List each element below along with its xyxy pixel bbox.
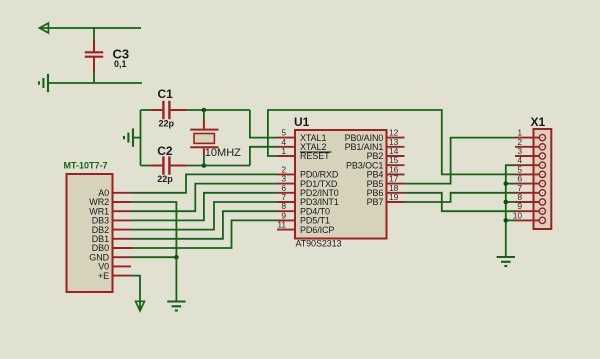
wire crystal top connect — [203, 110, 205, 120]
pin 12 stub (PB0/AIN0) — [387, 137, 405, 139]
pin 7 stub (PD3/INT1) — [277, 201, 295, 203]
wire to XTAL2 pin 4 — [250, 147, 277, 166]
capacitor C3 top lead — [93, 39, 95, 51]
ground (MT GND) — [167, 302, 185, 311]
connector X1 body — [534, 129, 552, 229]
junction GND node — [174, 255, 179, 260]
wire RESET net to X1 pin 5 — [268, 110, 515, 174]
wire +E down to power arrow — [131, 276, 140, 310]
svg-text:X1: X1 — [531, 115, 546, 129]
pin stub DB1 — [113, 238, 132, 240]
crystal 10MHZ body — [194, 134, 214, 144]
pin 2 stub (X1) — [515, 146, 539, 148]
wire DB0 to PD5 — [131, 220, 277, 248]
junction X1 pin 10 — [504, 218, 509, 223]
svg-text:PD6/ICP: PD6/ICP — [300, 225, 334, 235]
pin 7 stub (X1) — [515, 192, 539, 194]
wire PB7 to X1 pin 7 — [405, 193, 516, 202]
svg-text:0,1: 0,1 — [114, 59, 127, 69]
capacitor C2 right lead — [171, 165, 187, 167]
svg-text:AT90S2313: AT90S2313 — [296, 239, 342, 249]
capacitor C1 plates — [163, 101, 169, 119]
pin hole 9 (X1) — [539, 208, 545, 214]
pin 5 stub (XTAL1) — [277, 137, 295, 139]
svg-text:1: 1 — [281, 146, 286, 156]
wire bottom ground rail — [48, 82, 142, 84]
svg-text:RESET: RESET — [300, 151, 330, 161]
pin 3 stub (X1) — [515, 155, 539, 157]
wire rail to X1 pin 8 — [506, 201, 515, 203]
wire DB2 to PD3 — [131, 202, 277, 230]
pin 4 stub (X1) — [515, 164, 539, 166]
crystal 10MHZ plates — [190, 130, 218, 148]
svg-text:22p: 22p — [157, 174, 173, 184]
pin stub WR1 — [113, 210, 132, 212]
ground (crystal loop) — [124, 128, 133, 146]
wire WR1 to PD1 — [131, 184, 277, 212]
pin stub DB0 — [113, 247, 132, 249]
power arrow (down-pointing, +E) — [136, 301, 145, 311]
pin 6 stub (X1) — [515, 183, 539, 185]
pin 9 stub (PD5/T1) — [277, 219, 295, 221]
pin 15 stub (PB3/OC1) — [387, 164, 405, 166]
wire PB5 to X1 pin 1 — [405, 138, 516, 184]
junction X1 pin 6 — [504, 181, 509, 186]
wire C3 top lead (net) — [93, 28, 95, 39]
pin hole 2 (X1) — [539, 144, 545, 150]
pin hole 7 (X1) — [539, 190, 545, 196]
pin stub DB3 — [113, 219, 132, 221]
capacitor C2 left lead — [150, 165, 162, 167]
pin 8 stub (PD4/T0) — [277, 210, 295, 212]
capacitor C3 bottom lead — [93, 58, 95, 73]
pin 18 stub (PB6) — [387, 192, 405, 194]
pin 3 stub (PD1/TXD) — [277, 183, 295, 185]
pin 5 stub (X1) — [515, 173, 539, 175]
pin stub WR2 — [113, 201, 132, 203]
capacitor C3 plates — [85, 52, 103, 56]
svg-text:U1: U1 — [294, 115, 310, 129]
capacitor C1 left lead — [150, 109, 162, 111]
wire rail to X1 pin 10 — [506, 219, 515, 221]
pin 1 stub (RESET) — [277, 155, 295, 157]
svg-text:10: 10 — [513, 210, 523, 220]
junction X1 pin 8 — [504, 200, 509, 205]
capacitor C1 right lead — [171, 109, 187, 111]
wire C1 to junction / XTAL1 run — [187, 109, 250, 111]
pin 13 stub (PB1/AIN1) — [387, 146, 405, 148]
pin 9 stub (X1) — [515, 210, 539, 212]
wire A0 to PD0 — [131, 174, 277, 192]
crystal X1 top pin — [203, 120, 205, 129]
svg-text:22p: 22p — [159, 119, 175, 129]
pin 16 stub (PB4) — [387, 173, 405, 175]
pin 6 stub (PD2/INT0) — [277, 192, 295, 194]
svg-text:PB7: PB7 — [367, 197, 384, 207]
pin 1 stub (X1) — [515, 137, 539, 139]
pin 17 stub (PB5) — [387, 183, 405, 185]
LCD module MT-10T7-7 body — [67, 174, 113, 292]
svg-text:11: 11 — [277, 220, 286, 230]
wire WR2 down to GND node — [131, 202, 176, 257]
wire PB6 to X1 pin 9 — [405, 193, 516, 211]
wire GND to junction — [131, 256, 176, 258]
pin hole 1 (X1) — [539, 135, 545, 141]
junction crystal top — [202, 108, 207, 113]
ground (top-left rail) — [39, 74, 48, 92]
wire to XTAL1 pin 5 — [250, 110, 277, 138]
crystal bottom pin — [203, 148, 205, 156]
pin 4 stub (XTAL2) — [277, 146, 295, 148]
svg-text:19: 19 — [389, 192, 399, 202]
wire ground stub to loop — [133, 137, 141, 139]
pin hole 6 (X1) — [539, 181, 545, 187]
pin 8 stub (X1) — [515, 201, 539, 203]
pin 19 stub (PB7) — [387, 201, 405, 203]
wire top power rail — [40, 27, 141, 29]
pin stub V0 — [113, 265, 132, 267]
wire GND node down to ground — [175, 257, 177, 301]
op-amp/IC U1 body — [295, 130, 387, 239]
wire DB1 to PD4 — [131, 211, 277, 239]
RESET overline — [300, 151, 332, 153]
wire rail to X1 pin 6 — [506, 183, 515, 185]
svg-text:10MHZ: 10MHZ — [205, 147, 241, 159]
svg-text:+E: +E — [98, 271, 109, 281]
pin stub GND — [113, 256, 132, 258]
wire C2 left (net) — [141, 165, 151, 167]
pin 10 stub (X1) — [515, 219, 539, 221]
wire DB3 to PD2 — [131, 193, 277, 221]
pin hole 4 (X1) — [539, 162, 545, 168]
ground (X1 rail) — [497, 257, 515, 266]
svg-text:C2: C2 — [157, 144, 173, 158]
svg-text:C1: C1 — [158, 87, 174, 101]
pin stub A0 — [113, 192, 132, 194]
pin 2 stub (PD0/RXD) — [277, 173, 295, 175]
junction crystal bottom — [202, 163, 207, 168]
pin stub DB2 — [113, 229, 132, 231]
power arrow (left-pointing) — [39, 23, 48, 33]
wire C1 left (net) — [141, 109, 151, 111]
pin hole 8 (X1) — [539, 199, 545, 205]
pin 11 stub (PD6/ICP) — [277, 229, 295, 231]
capacitor C2 plates — [163, 156, 169, 174]
pin hole 3 (X1) — [539, 153, 545, 159]
wire crystal loop left vertical — [140, 110, 142, 166]
pin stub +E — [113, 275, 132, 277]
wire crystal bottom connect — [203, 156, 205, 166]
svg-text:MT-10T7-7: MT-10T7-7 — [64, 161, 108, 171]
wire C2 to junction / XTAL2 run — [187, 165, 250, 167]
pin hole 10 (X1) — [539, 217, 545, 223]
wire C3 bottom lead (net) — [93, 73, 95, 84]
pin 14 stub (PB2) — [387, 155, 405, 157]
pin hole 5 (X1) — [539, 171, 545, 177]
wire X1 ground rail — [506, 165, 515, 257]
